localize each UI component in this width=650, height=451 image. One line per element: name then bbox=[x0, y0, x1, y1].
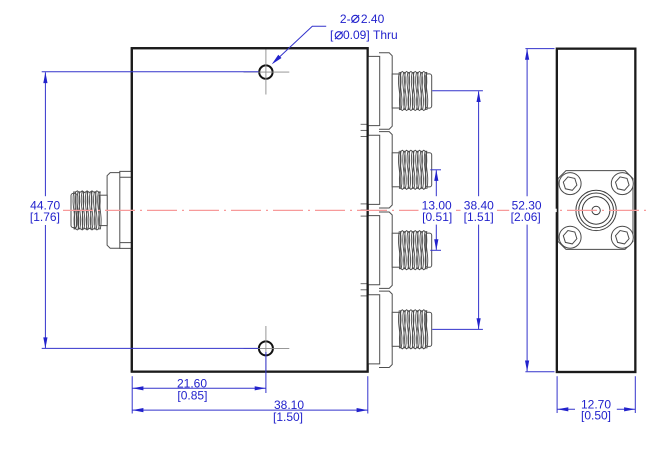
flange screw bbox=[611, 173, 633, 195]
svg-text:2-: 2- bbox=[340, 12, 351, 26]
dim 52.30 line bbox=[526, 49, 528, 196]
mounting hole bottom bbox=[259, 341, 273, 355]
dim 38.10 line bbox=[132, 409, 368, 411]
dim 13.00 arrows bbox=[434, 170, 438, 181]
connector J1 plate bbox=[120, 171, 132, 248]
connector J4 end cap bbox=[426, 233, 432, 267]
dim 13.00 line bbox=[435, 170, 437, 196]
connector J5 end cap bbox=[426, 312, 432, 346]
connector J3 threads bbox=[400, 150, 426, 152]
top hole crosshair bbox=[244, 50, 290, 95]
hole note leader bbox=[279, 26, 326, 57]
svg-text:2.40: 2.40 bbox=[361, 12, 385, 26]
mounting recess lines bbox=[361, 284, 367, 296]
connector J3 flange bbox=[379, 132, 392, 208]
connector J1 neck bbox=[99, 195, 107, 225]
connector J2 plate bbox=[368, 56, 380, 125]
connector J1 end cap bbox=[71, 193, 77, 227]
red centerline bbox=[63, 209, 649, 211]
connector J4 plate bbox=[368, 216, 380, 285]
connector J3 end cap bbox=[426, 153, 432, 187]
dim 44.70 arrows bbox=[43, 72, 47, 83]
mounting recess lines bbox=[361, 204, 367, 216]
dim 21.60 extension lines bbox=[131, 376, 133, 394]
connector J4 threads bbox=[400, 231, 426, 233]
dim 44.70 extension lines bbox=[42, 71, 259, 73]
mounting recess lines bbox=[361, 124, 367, 136]
dim 21.60 arrows bbox=[132, 386, 143, 390]
dim 13.00 extension ticks bbox=[430, 169, 441, 171]
dim 38.40 arrows bbox=[477, 91, 481, 102]
svg-text:[1.76]: [1.76] bbox=[30, 210, 60, 224]
connector J5 flange bbox=[379, 291, 392, 367]
flange screw bbox=[559, 226, 581, 248]
connector J2 end cap bbox=[426, 74, 432, 108]
side connector circles bbox=[576, 190, 616, 230]
front view body outline bbox=[132, 48, 368, 371]
dim 38.40 extension lines bbox=[432, 90, 483, 92]
connector J3 plate bbox=[368, 135, 380, 204]
flange screw bbox=[611, 226, 633, 248]
connector J3 neck bbox=[392, 153, 400, 187]
side flange plate bbox=[558, 171, 633, 250]
flange screw bbox=[559, 173, 581, 195]
connector J5 neck bbox=[392, 312, 400, 346]
svg-text:[1.50]: [1.50] bbox=[273, 410, 303, 424]
dim 12.70 arrows bbox=[557, 407, 568, 411]
dim 38.10 arrows bbox=[132, 408, 143, 412]
svg-text:[0.50]: [0.50] bbox=[581, 409, 611, 423]
bottom hole crosshair bbox=[244, 326, 290, 371]
connector J1 threads bbox=[75, 191, 100, 193]
connector J5 plate bbox=[368, 295, 380, 364]
side view body outline bbox=[557, 49, 636, 372]
dim 12.70 line bbox=[557, 408, 575, 410]
dim 38.10 extension lines bbox=[131, 394, 133, 414]
connector J5 threads bbox=[400, 310, 426, 312]
text masks bbox=[419, 209, 557, 212]
svg-text:[0.85]: [0.85] bbox=[177, 388, 207, 402]
connector J1 flange bbox=[107, 173, 120, 249]
dim 21.60 line bbox=[132, 387, 266, 389]
front view body bbox=[132, 48, 368, 371]
connector J2 threads bbox=[400, 71, 426, 73]
svg-text:0.09] Thru: 0.09] Thru bbox=[343, 28, 398, 42]
dim 44.70 line bbox=[44, 72, 46, 196]
connector J2 flange bbox=[379, 53, 392, 129]
dim 38.40 line bbox=[478, 91, 480, 196]
connector J4 neck bbox=[392, 233, 400, 267]
svg-text:[0.51]: [0.51] bbox=[422, 210, 452, 224]
svg-text:[1.51]: [1.51] bbox=[464, 210, 494, 224]
dim 52.30 arrows bbox=[525, 49, 529, 60]
svg-text:[2.06]: [2.06] bbox=[511, 210, 541, 224]
dim 12.70 extension lines bbox=[556, 376, 558, 413]
side view body bbox=[557, 49, 636, 372]
dim 52.30 extension lines bbox=[525, 48, 554, 50]
mounting hole top bbox=[259, 65, 272, 78]
hole note arrow bbox=[272, 55, 282, 65]
connector J2 neck bbox=[392, 74, 400, 108]
connector J4 flange bbox=[379, 212, 392, 288]
